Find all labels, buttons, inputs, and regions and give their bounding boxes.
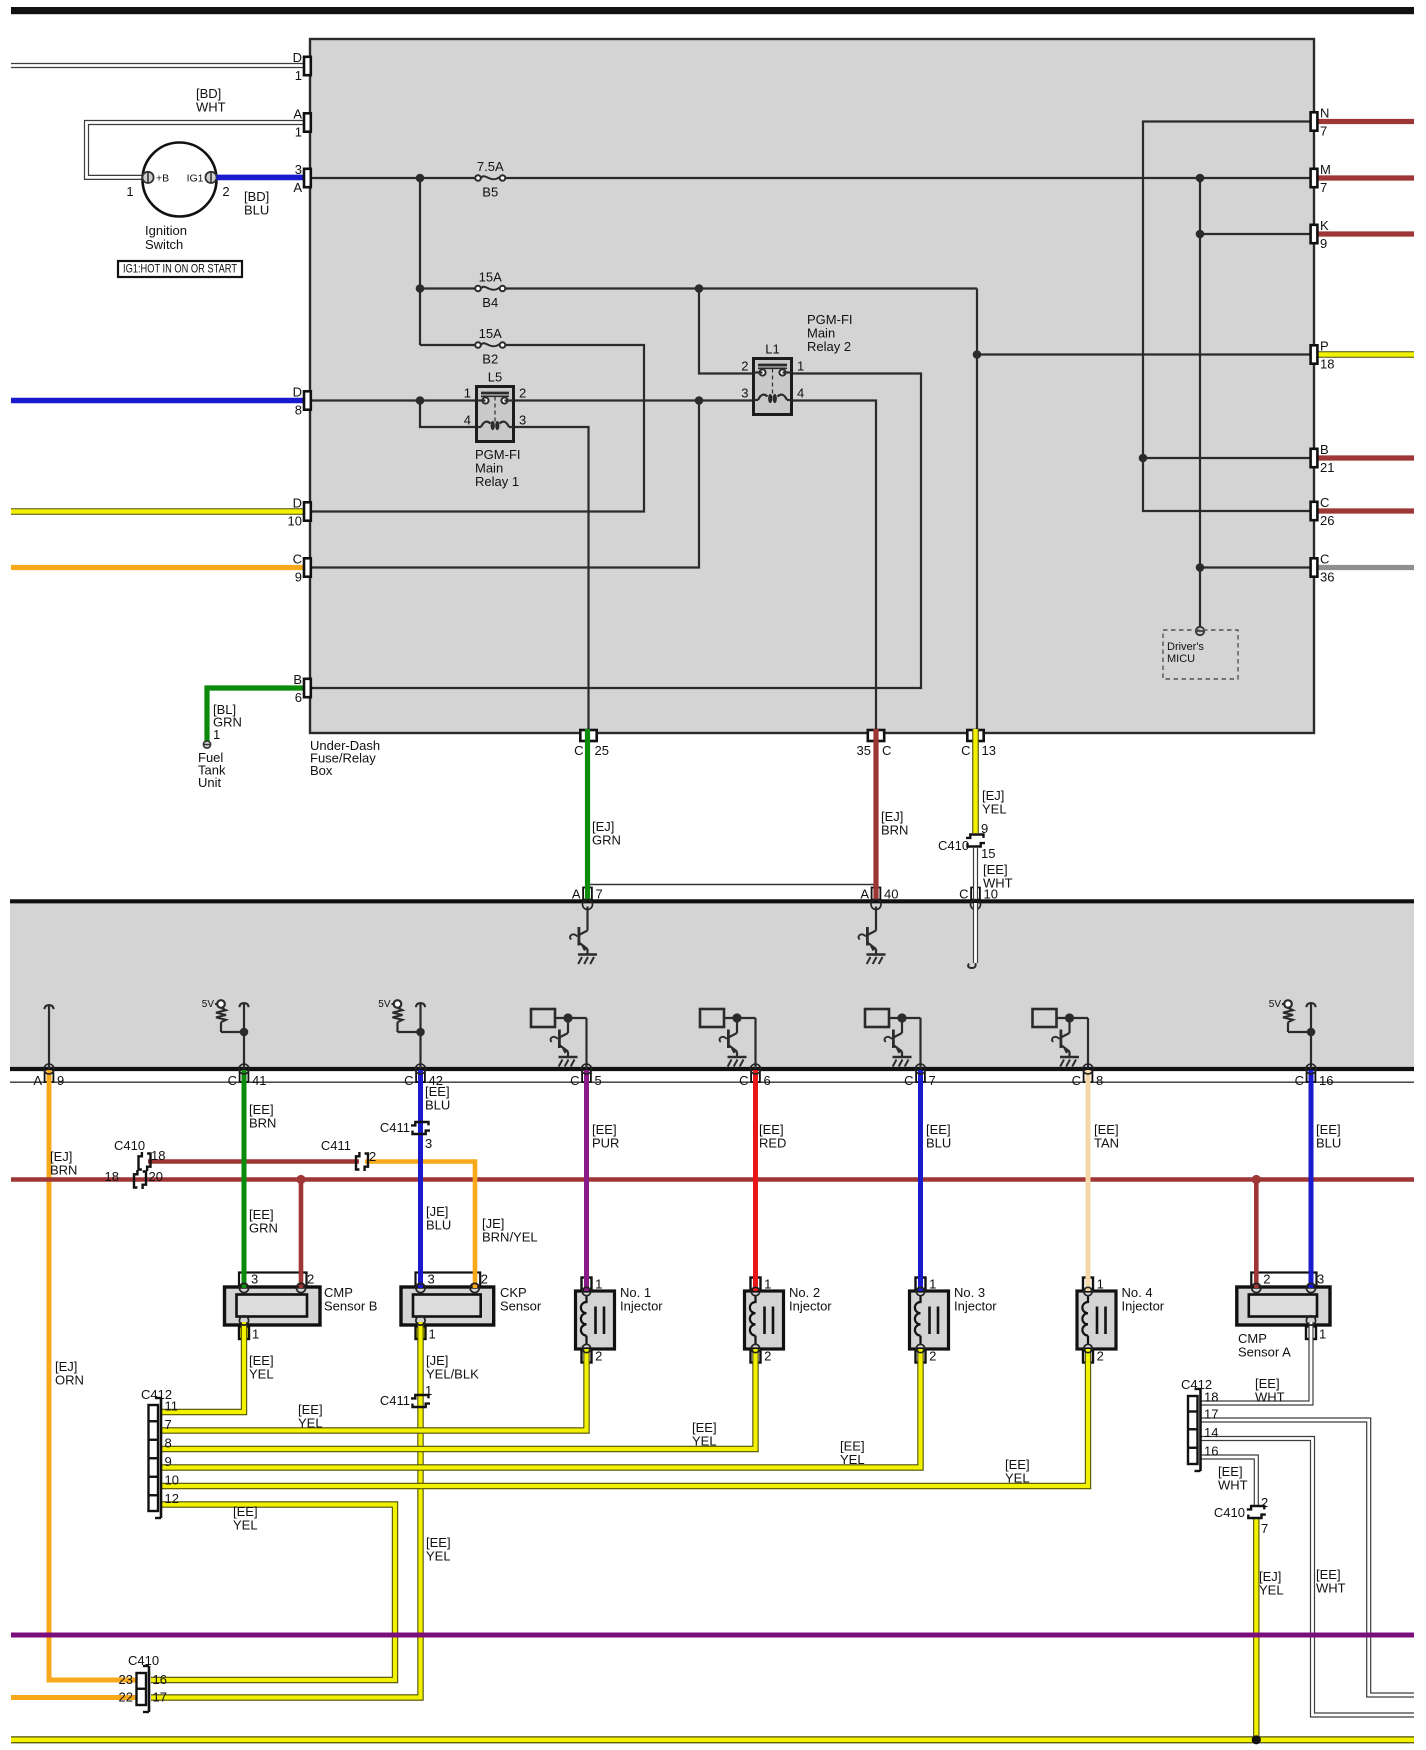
- svg-text:Unit: Unit: [198, 775, 222, 790]
- svg-text:8: 8: [165, 1436, 172, 1451]
- svg-text:14: 14: [1204, 1425, 1218, 1440]
- svg-text:7: 7: [596, 887, 603, 902]
- svg-text:16: 16: [153, 1672, 167, 1687]
- svg-text:35: 35: [857, 743, 871, 758]
- svg-text:2: 2: [307, 1272, 314, 1287]
- svg-text:A: A: [572, 887, 581, 902]
- svg-text:16: 16: [1319, 1073, 1333, 1088]
- svg-text:23: 23: [119, 1672, 133, 1687]
- svg-text:IG1:HOT IN ON OR START: IG1:HOT IN ON OR START: [123, 262, 238, 276]
- svg-text:9: 9: [981, 821, 988, 836]
- svg-text:18: 18: [1204, 1390, 1218, 1405]
- svg-text:BRN/YEL: BRN/YEL: [482, 1230, 538, 1245]
- svg-text:Sensor B: Sensor B: [324, 1299, 377, 1314]
- svg-text:C: C: [404, 1073, 413, 1088]
- svg-text:4: 4: [797, 386, 804, 401]
- svg-text:C: C: [1320, 552, 1329, 567]
- svg-text:ORN: ORN: [55, 1373, 84, 1388]
- svg-text:C410: C410: [128, 1653, 159, 1668]
- svg-text:18: 18: [1320, 357, 1334, 372]
- svg-text:4: 4: [464, 413, 471, 428]
- svg-text:B5: B5: [482, 185, 498, 200]
- svg-text:Sensor A: Sensor A: [1238, 1345, 1291, 1360]
- svg-text:18: 18: [105, 1169, 119, 1184]
- svg-text:K: K: [1320, 218, 1329, 233]
- svg-text:BRN: BRN: [50, 1163, 77, 1178]
- svg-text:Driver's: Driver's: [1167, 641, 1204, 653]
- svg-text:YEL: YEL: [840, 1452, 865, 1467]
- svg-text:YEL: YEL: [982, 802, 1007, 817]
- svg-text:C: C: [739, 1073, 748, 1088]
- svg-text:C411: C411: [380, 1393, 410, 1408]
- svg-text:Relay 2: Relay 2: [807, 339, 851, 354]
- svg-text:1: 1: [252, 1327, 259, 1342]
- svg-text:L5: L5: [488, 370, 502, 385]
- svg-text:MICU: MICU: [1167, 653, 1195, 665]
- svg-text:GRN: GRN: [249, 1221, 278, 1236]
- svg-text:12: 12: [165, 1491, 179, 1506]
- svg-text:C: C: [1295, 1073, 1304, 1088]
- svg-text:WHT: WHT: [1316, 1581, 1346, 1596]
- svg-text:YEL: YEL: [1005, 1471, 1030, 1486]
- svg-text:26: 26: [1320, 513, 1334, 528]
- svg-text:YEL: YEL: [426, 1549, 451, 1564]
- svg-text:A: A: [33, 1073, 42, 1088]
- svg-text:PUR: PUR: [592, 1136, 619, 1151]
- svg-text:3: 3: [1317, 1272, 1324, 1287]
- svg-text:D: D: [293, 385, 302, 400]
- svg-text:15A: 15A: [479, 326, 502, 341]
- svg-text:13: 13: [982, 743, 996, 758]
- svg-text:2: 2: [369, 1149, 376, 1164]
- svg-text:C411: C411: [380, 1120, 410, 1135]
- svg-text:YEL: YEL: [1259, 1583, 1284, 1598]
- svg-text:C: C: [961, 743, 970, 758]
- svg-text:2: 2: [1263, 1272, 1270, 1287]
- svg-text:GRN: GRN: [592, 833, 621, 848]
- svg-text:15A: 15A: [479, 270, 502, 285]
- svg-text:Switch: Switch: [145, 237, 183, 252]
- svg-text:3: 3: [251, 1272, 258, 1287]
- svg-text:Injector: Injector: [789, 1299, 832, 1314]
- svg-text:1: 1: [797, 359, 804, 374]
- svg-text:1: 1: [1097, 1277, 1104, 1292]
- svg-text:N: N: [1320, 106, 1329, 121]
- svg-text:BRN: BRN: [881, 823, 908, 838]
- svg-text:7: 7: [1261, 1521, 1268, 1536]
- svg-text:18: 18: [151, 1148, 165, 1163]
- svg-text:17: 17: [153, 1690, 167, 1705]
- svg-text:9: 9: [57, 1073, 64, 1088]
- svg-text:C: C: [293, 552, 302, 567]
- svg-text:WHT: WHT: [196, 100, 226, 115]
- svg-text:BLU: BLU: [1316, 1136, 1341, 1151]
- svg-text:BRN: BRN: [249, 1116, 276, 1131]
- svg-text:1: 1: [213, 727, 220, 742]
- svg-text:1: 1: [425, 1383, 432, 1398]
- svg-text:2: 2: [595, 1349, 602, 1364]
- svg-text:2: 2: [1097, 1349, 1104, 1364]
- svg-text:2: 2: [764, 1349, 771, 1364]
- svg-text:15: 15: [981, 846, 995, 861]
- svg-text:Injector: Injector: [620, 1299, 663, 1314]
- svg-text:A: A: [860, 887, 869, 902]
- svg-text:WHT: WHT: [1255, 1390, 1285, 1405]
- svg-text:Relay 1: Relay 1: [475, 474, 519, 489]
- svg-text:C: C: [904, 1073, 913, 1088]
- svg-text:B: B: [293, 672, 302, 687]
- svg-text:3: 3: [519, 413, 526, 428]
- svg-text:6: 6: [295, 690, 302, 705]
- svg-text:C411: C411: [321, 1138, 351, 1153]
- svg-text:B4: B4: [482, 295, 498, 310]
- svg-text:1: 1: [126, 184, 133, 199]
- svg-text:B2: B2: [482, 352, 498, 367]
- svg-text:1: 1: [295, 125, 302, 140]
- svg-text:3: 3: [741, 386, 748, 401]
- svg-text:Injector: Injector: [1122, 1299, 1165, 1314]
- svg-text:5V: 5V: [202, 999, 215, 1010]
- svg-text:1: 1: [929, 1277, 936, 1292]
- svg-text:D: D: [293, 496, 302, 511]
- svg-text:5: 5: [595, 1073, 602, 1088]
- svg-text:7: 7: [165, 1417, 172, 1432]
- svg-text:P: P: [1320, 339, 1329, 354]
- svg-text:40: 40: [884, 887, 898, 902]
- svg-text:41: 41: [252, 1073, 266, 1088]
- svg-text:L1: L1: [765, 342, 779, 357]
- svg-text:C: C: [570, 1073, 579, 1088]
- svg-text:M: M: [1320, 162, 1331, 177]
- svg-text:1: 1: [764, 1277, 771, 1292]
- svg-text:Ignition: Ignition: [145, 223, 187, 238]
- svg-text:8: 8: [1096, 1073, 1103, 1088]
- svg-text:7: 7: [1320, 180, 1327, 195]
- svg-text:WHT: WHT: [1218, 1478, 1248, 1493]
- svg-text:1: 1: [1319, 1327, 1326, 1342]
- svg-text:C: C: [1320, 495, 1329, 510]
- svg-text:BLU: BLU: [926, 1136, 951, 1151]
- svg-text:10: 10: [165, 1473, 179, 1488]
- svg-text:BLU: BLU: [425, 1098, 450, 1113]
- svg-text:YEL: YEL: [298, 1416, 323, 1431]
- svg-text:TAN: TAN: [1094, 1136, 1119, 1151]
- svg-text:C: C: [882, 743, 891, 758]
- svg-text:YEL: YEL: [692, 1434, 717, 1449]
- svg-text:YEL: YEL: [233, 1518, 258, 1533]
- svg-text:16: 16: [1204, 1444, 1218, 1459]
- svg-text:5V: 5V: [1269, 999, 1282, 1010]
- svg-text:C410: C410: [1214, 1505, 1245, 1520]
- svg-text:C410: C410: [938, 838, 969, 853]
- svg-text:22: 22: [119, 1690, 133, 1705]
- svg-text:17: 17: [1204, 1407, 1218, 1422]
- svg-text:7: 7: [929, 1073, 936, 1088]
- svg-text:Box: Box: [310, 763, 333, 778]
- svg-text:C: C: [959, 887, 968, 902]
- svg-text:YEL: YEL: [249, 1367, 274, 1382]
- svg-text:10: 10: [984, 887, 998, 902]
- svg-text:21: 21: [1320, 460, 1334, 475]
- svg-text:9: 9: [165, 1454, 172, 1469]
- svg-text:10: 10: [288, 514, 302, 529]
- svg-text:C: C: [1072, 1073, 1081, 1088]
- svg-text:7: 7: [1320, 124, 1327, 139]
- svg-text:C: C: [574, 743, 583, 758]
- svg-text:Injector: Injector: [954, 1299, 997, 1314]
- svg-text:C410: C410: [114, 1138, 145, 1153]
- svg-text:RED: RED: [759, 1136, 786, 1151]
- svg-text:25: 25: [595, 743, 609, 758]
- svg-text:9: 9: [1320, 236, 1327, 251]
- svg-text:2: 2: [1261, 1495, 1268, 1510]
- svg-text:+B: +B: [156, 173, 169, 185]
- svg-text:2: 2: [519, 386, 526, 401]
- svg-text:6: 6: [764, 1073, 771, 1088]
- svg-text:B: B: [1320, 442, 1329, 457]
- svg-text:9: 9: [295, 570, 302, 585]
- svg-text:Sensor: Sensor: [500, 1299, 542, 1314]
- svg-text:3: 3: [295, 162, 302, 177]
- svg-text:1: 1: [295, 68, 302, 83]
- svg-text:BLU: BLU: [426, 1218, 451, 1233]
- svg-text:1: 1: [429, 1327, 436, 1342]
- svg-text:2: 2: [929, 1349, 936, 1364]
- svg-text:IG1: IG1: [187, 173, 204, 185]
- svg-text:7.5A: 7.5A: [477, 159, 504, 174]
- svg-text:2: 2: [222, 184, 229, 199]
- svg-text:5V: 5V: [378, 999, 391, 1010]
- svg-text:D: D: [293, 50, 302, 65]
- svg-text:3: 3: [428, 1272, 435, 1287]
- svg-text:YEL/BLK: YEL/BLK: [426, 1367, 479, 1382]
- svg-text:A: A: [293, 107, 302, 122]
- svg-text:C: C: [228, 1073, 237, 1088]
- svg-text:20: 20: [149, 1169, 163, 1184]
- svg-text:11: 11: [165, 1399, 179, 1414]
- svg-text:3: 3: [425, 1136, 432, 1151]
- svg-text:2: 2: [481, 1272, 488, 1287]
- svg-text:1: 1: [464, 386, 471, 401]
- svg-text:36: 36: [1320, 570, 1334, 585]
- svg-text:A: A: [293, 180, 302, 195]
- svg-text:2: 2: [741, 359, 748, 374]
- svg-text:1: 1: [595, 1277, 602, 1292]
- svg-text:8: 8: [295, 403, 302, 418]
- svg-text:BLU: BLU: [244, 203, 269, 218]
